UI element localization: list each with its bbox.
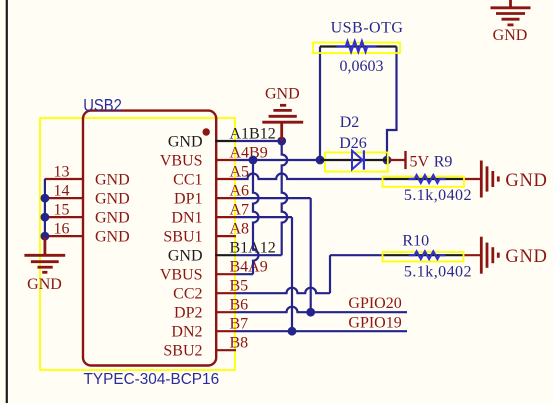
svg-text:GND: GND (95, 171, 130, 188)
resistor R9 5.1k,0402 (383, 177, 465, 187)
ground (top right corner) (491, 0, 531, 25)
pin A7 (DN1) (215, 216, 236, 218)
junction (306, 308, 315, 317)
resistor R10 5.1k,0402 (383, 252, 464, 262)
pin A6 (DP1) (215, 197, 236, 199)
svg-text:R10: R10 (402, 233, 429, 250)
junction (316, 156, 325, 165)
svg-text:SBU1: SBU1 (163, 228, 202, 245)
connector USB2 selection box (40, 118, 235, 370)
svg-text:USB2: USB2 (83, 95, 122, 115)
svg-text:DN1: DN1 (171, 209, 202, 226)
svg-text:A8: A8 (230, 221, 250, 238)
svg-text:DN2: DN2 (171, 324, 202, 341)
svg-text:GND: GND (95, 190, 130, 207)
svg-text:15: 15 (54, 202, 70, 219)
svg-text:DP2: DP2 (174, 305, 202, 322)
svg-text:0,0603: 0,0603 (340, 58, 384, 75)
junction (41, 232, 50, 241)
wire VBUS vertical x253 with hops (253, 160, 259, 274)
wire GPIO19 (236, 330, 407, 332)
svg-text:14: 14 (54, 183, 70, 200)
svg-text:5.1k,0402: 5.1k,0402 (404, 263, 472, 280)
connector USB2 body (83, 111, 216, 366)
pin B7 (DN2) (215, 330, 236, 332)
junction (288, 327, 297, 336)
svg-text:13: 13 (54, 164, 70, 181)
pin A5 (CC1) (215, 178, 236, 180)
wire R-USB-OTG right leg (387, 47, 397, 161)
svg-text:5V: 5V (410, 154, 430, 171)
wire GPIO20 with hop (236, 307, 407, 313)
pin 16 (GND) (45, 235, 84, 237)
svg-text:DP1: DP1 (174, 190, 202, 207)
power port 5V (387, 151, 406, 169)
svg-text:GPIO19: GPIO19 (348, 315, 401, 332)
junction (249, 156, 258, 165)
wire DP vertical x310.7 (310, 198, 312, 312)
wire VBUS A4B9 to diode anode (236, 159, 320, 161)
svg-text:5.1k,0402: 5.1k,0402 (404, 187, 472, 204)
svg-text:GND: GND (493, 27, 528, 44)
ground (right, R9) (463, 161, 499, 198)
svg-text:GND: GND (95, 209, 130, 226)
pin A4B9 (VBUS) (215, 159, 236, 161)
pin A8 (SBU1) (215, 235, 236, 237)
pin B5 (CC2) (215, 292, 236, 294)
wire CC2 to R10 (330, 254, 385, 256)
wire CC2 riser x330 (329, 255, 331, 293)
junction (383, 156, 392, 165)
wire CC2 horizontal with hops (236, 288, 330, 294)
wire A1B12 GND to junction (236, 140, 282, 142)
sheet border (6, 0, 8, 403)
svg-text:GND: GND (505, 247, 547, 267)
svg-text:D2: D2 (340, 114, 360, 131)
svg-text:VBUS: VBUS (160, 152, 203, 169)
junction (41, 213, 50, 222)
USB2 pin-1 dot (203, 128, 210, 135)
junction (41, 194, 50, 203)
wire CC1 to R9 with hops (236, 174, 385, 180)
pin 14 (GND) (45, 197, 84, 199)
pin B4A9 (VBUS) (215, 273, 236, 275)
svg-text:R9: R9 (434, 154, 453, 171)
svg-text:16: 16 (54, 221, 70, 238)
pin B6 (DP2) (215, 311, 236, 313)
wire B1A12 GND to vertical (236, 254, 282, 256)
svg-text:GPIO20: GPIO20 (348, 295, 401, 312)
svg-text:SBU2: SBU2 (163, 343, 202, 360)
svg-text:D26: D26 (339, 135, 367, 152)
svg-text:CC1: CC1 (173, 171, 202, 188)
svg-text:USB-OTG: USB-OTG (331, 20, 404, 37)
pin B8 (SBU2) (215, 349, 236, 351)
ground (right, R10) (463, 237, 499, 274)
svg-text:GND: GND (27, 276, 62, 293)
wire R-USB-OTG left leg (319, 47, 321, 161)
svg-text:GND: GND (265, 86, 300, 103)
wire GND vertical x282 with hops (282, 141, 288, 255)
wire DP1 A6 horizontal (236, 197, 311, 199)
junction (277, 137, 286, 146)
pin 13 (GND) (45, 178, 84, 180)
wire B4A9 VBUS stub (236, 273, 253, 275)
wire DN vertical x292 (291, 217, 293, 331)
ground (top center, inverted, above A1B12) (262, 105, 303, 141)
ground (left, below pin 16) (24, 237, 65, 272)
wire left GND bus vertical (44, 179, 46, 238)
svg-text:GND: GND (168, 133, 203, 150)
pin B1A12 (GND) (215, 254, 236, 256)
pin A1B12 (GND) (215, 140, 236, 142)
pin 15 (GND) (45, 216, 84, 218)
svg-text:CC2: CC2 (173, 286, 202, 303)
svg-text:VBUS: VBUS (160, 267, 203, 284)
wire DN1 A7 horizontal (236, 216, 292, 218)
svg-text:GND: GND (168, 248, 203, 265)
diode D2 D26 (325, 152, 388, 171)
svg-text:B8: B8 (230, 335, 249, 352)
svg-text:GND: GND (95, 228, 130, 245)
resistor USB-OTG 0,0603 (313, 43, 400, 54)
svg-text:GND: GND (505, 171, 547, 191)
svg-text:TYPEC-304-BCP16: TYPEC-304-BCP16 (84, 371, 220, 388)
